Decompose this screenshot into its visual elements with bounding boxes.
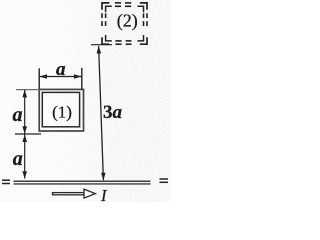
loop 2 dashes: bottom edge [115,43,121,45]
3a extension tick [91,44,112,46]
loop 2 dashes: left edge [101,13,103,18]
left dimension line [24,90,26,179]
paper noise texture [0,0,170,202]
left break = [2,179,10,181]
loop 2 dashed inner square: corner brackets [106,6,144,41]
loop 2 dashes: top edge [102,3,147,44]
svg-text:(2): (2) [117,11,138,32]
top dimension extension lines [38,68,40,90]
left dim middle down arrow [22,126,27,134]
3a top arrow (up) [97,46,102,54]
wire (double line) [14,180,151,182]
left dim bottom arrow (down) [22,171,27,179]
loop 1 outer square [39,89,83,131]
arrowheads [22,46,105,180]
top dim right arrow [74,74,82,79]
3a bottom arrow (down) [101,173,106,181]
3a dimension line [99,46,104,180]
top dimension line a [39,76,82,78]
left dim top arrow (up) [22,90,27,98]
left dimension extension lines [16,89,40,91]
svg-text:3a: 3a [103,102,123,123]
svg-text:a: a [13,104,23,126]
top dim left arrow [39,74,47,79]
right break = [160,178,169,180]
svg-text:a: a [56,59,66,80]
svg-text:(1): (1) [52,103,72,122]
current block arrow [53,189,96,198]
svg-text:a: a [13,148,23,170]
loop 2 dashes: right edge [146,13,148,18]
loop 1 inner square [42,92,79,126]
left dim middle up arrow [22,134,27,142]
loop 2 dashed outer square: corner brackets [102,3,147,44]
